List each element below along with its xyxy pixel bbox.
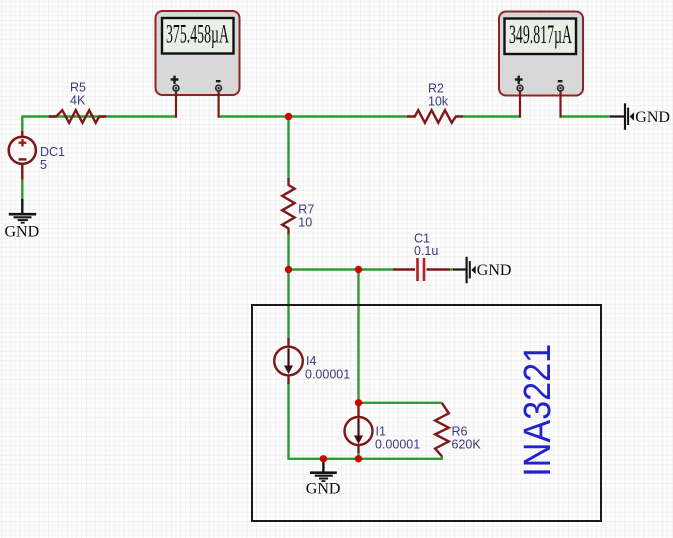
svg-text:5: 5	[40, 158, 47, 172]
svg-text:I4: I4	[306, 354, 316, 368]
svg-text:0.00001: 0.00001	[375, 438, 420, 452]
box INA3221 subcircuit	[252, 305, 601, 521]
svg-text:I1: I1	[376, 425, 386, 439]
svg-text:R5: R5	[70, 81, 86, 95]
svg-text:GND: GND	[477, 262, 512, 279]
svg-text:375.458µA: 375.458µA	[166, 19, 229, 48]
resistor R5	[49, 110, 107, 123]
label R5 value 4K	[70, 81, 86, 108]
label R7 value 10	[298, 203, 314, 230]
resistor R2	[407, 110, 463, 123]
ammeter U2 (349.817uA)	[499, 12, 583, 118]
wire: bottom rail	[289, 458, 443, 460]
label GND left	[5, 224, 40, 241]
label I1 value 0.00001	[375, 425, 420, 452]
wire: ammeter1 minus to junction A to R2	[219, 115, 407, 117]
label R6 value 620K	[452, 425, 482, 452]
ground terminal right (GND net)	[610, 103, 634, 130]
label GND at C1	[477, 262, 512, 279]
svg-text:INA3221: INA3221	[517, 344, 559, 477]
wire: junction A down through R7 to junction B	[287, 117, 289, 270]
svg-text:GND: GND	[635, 109, 670, 126]
ground symbol left (below DC1)	[9, 199, 36, 223]
junction node B2	[355, 266, 362, 273]
junction node B	[285, 266, 292, 273]
resistor R7	[282, 178, 294, 235]
capacitor C1	[393, 258, 450, 281]
svg-text:GND: GND	[5, 224, 40, 241]
svg-text:R2: R2	[428, 82, 444, 96]
label GND right	[635, 109, 670, 126]
ground symbol bottom (inside box)	[310, 460, 337, 482]
svg-text:0.00001: 0.00001	[305, 368, 350, 382]
wire: junction B horizontal to C1	[289, 268, 455, 270]
ammeter U1 (375.458uA)	[156, 11, 240, 118]
current source I4	[274, 338, 303, 384]
label R2 value 10k	[428, 82, 449, 109]
wire: junction B down through I4 to bottom rail	[287, 270, 289, 460]
label C1 value 0.1u	[414, 232, 438, 259]
wire: R2 right to ammeter2 plus	[463, 115, 520, 117]
label DC1 value 5	[40, 145, 65, 172]
ground terminal at C1 (GND net)	[453, 257, 476, 284]
svg-text:10k: 10k	[428, 95, 449, 109]
svg-text:10: 10	[298, 216, 312, 230]
svg-text:R6: R6	[452, 425, 468, 439]
svg-text:4K: 4K	[70, 94, 86, 108]
svg-text:349.817µA: 349.817µA	[509, 20, 572, 49]
wire: junction C down to I1 and junction D	[357, 270, 359, 460]
current source I1	[345, 405, 373, 453]
svg-text:GND: GND	[306, 481, 341, 498]
junction node E	[320, 455, 327, 462]
label GND bottom	[306, 481, 341, 498]
battery DC1 (5V source)	[9, 131, 36, 180]
svg-text:0.1u: 0.1u	[414, 244, 438, 258]
junction node D	[355, 399, 362, 406]
junction node F	[355, 455, 362, 462]
svg-text:620K: 620K	[452, 438, 482, 452]
junction node A	[285, 113, 292, 120]
wire: junction D horizontal to R6 and down	[359, 403, 442, 459]
resistor R6	[435, 403, 449, 456]
svg-text:R7: R7	[298, 203, 314, 217]
wire: top-left horizontal net from DC1 to ammeter +	[22, 116, 176, 201]
svg-text:DC1: DC1	[40, 145, 65, 159]
label INA3221	[517, 344, 559, 477]
wire: ammeter2 minus to GND terminal	[561, 115, 612, 117]
label I4 value 0.00001	[305, 354, 350, 382]
